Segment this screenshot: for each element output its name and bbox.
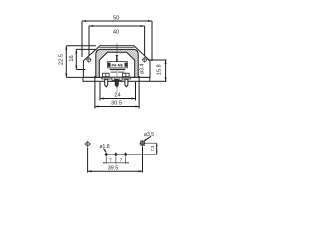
svg-text:ø1.8: ø1.8 [99,144,109,150]
svg-text:ø3.4: ø3.4 [140,64,146,74]
svg-text:7: 7 [109,157,112,163]
svg-text:16: 16 [69,55,75,61]
svg-text:39.5: 39.5 [108,166,119,172]
svg-text:ø3.5: ø3.5 [144,132,154,138]
svg-text:24: 24 [114,93,120,99]
svg-text:15.8: 15.8 [156,64,162,75]
svg-text:50: 50 [113,16,119,22]
svg-text:22.5: 22.5 [59,54,65,65]
svg-text:7: 7 [120,157,123,163]
svg-text:40: 40 [113,30,119,36]
svg-text:PA·NE: PA·NE [112,63,124,67]
svg-text:7.3: 7.3 [150,145,155,151]
svg-text:30.5: 30.5 [111,101,122,107]
